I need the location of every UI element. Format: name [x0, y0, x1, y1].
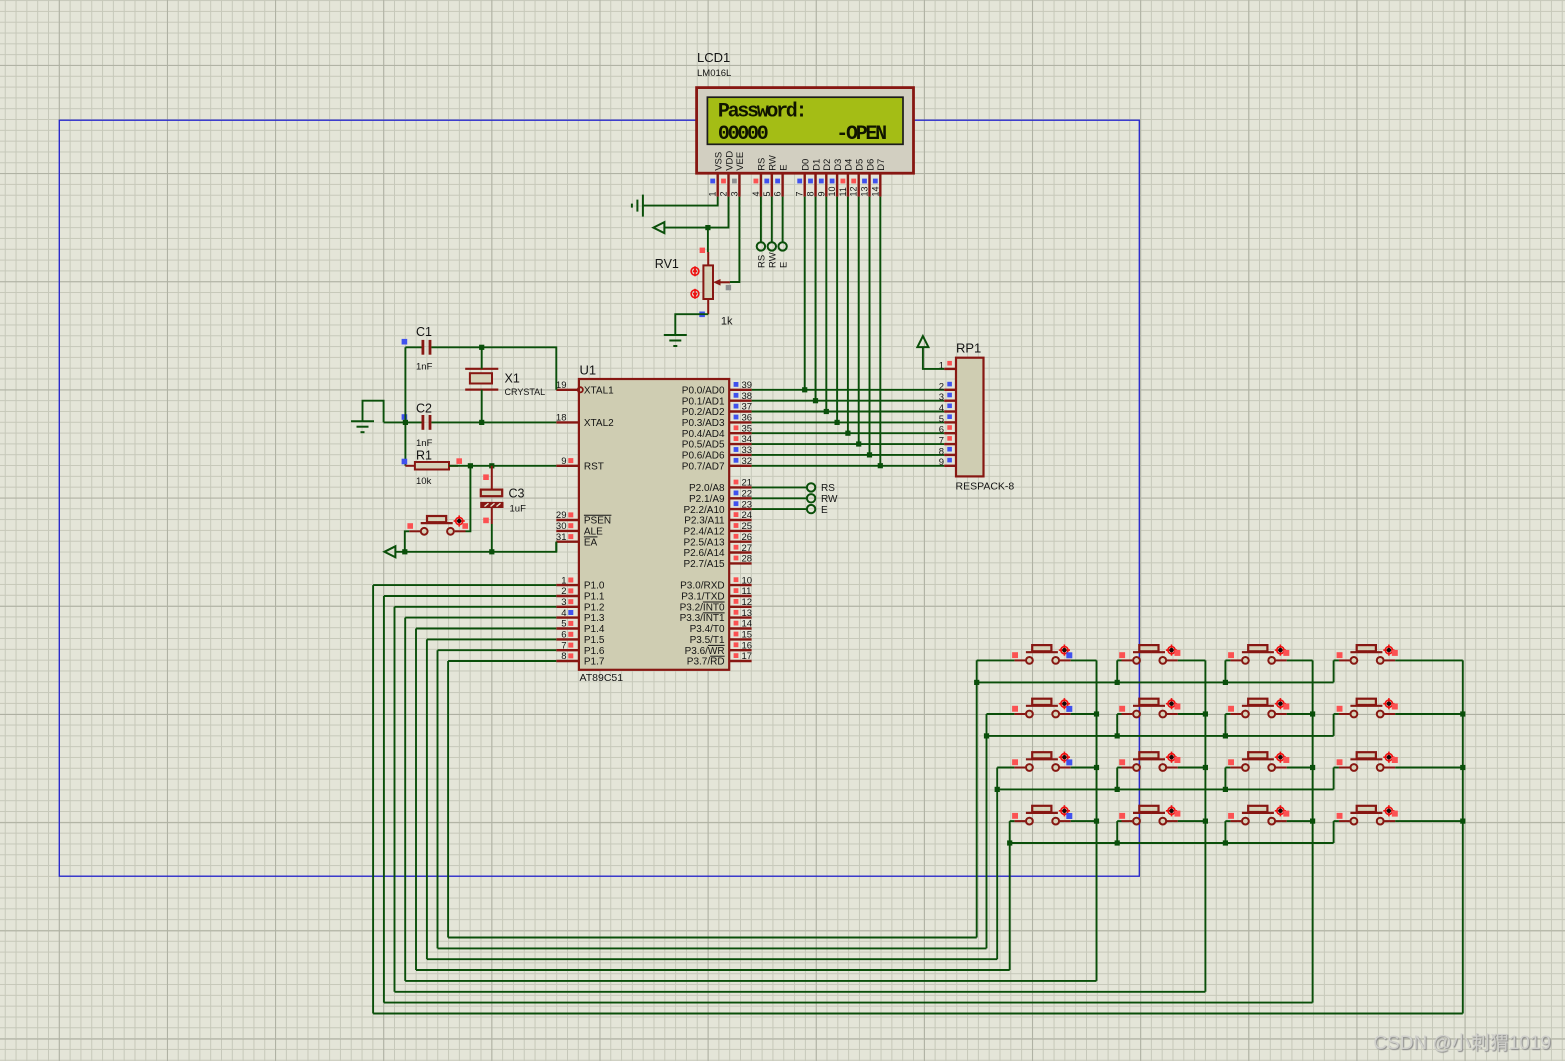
RP1 pin 8 [939, 446, 956, 457]
svg-text:P3.2/INT0: P3.2/INT0 [680, 602, 725, 613]
svg-text:12: 12 [849, 186, 859, 196]
svg-text:X1: X1 [505, 372, 520, 386]
wire keypad R4C4 right [1395, 820, 1463, 822]
state square keypad R1C1 left [1012, 652, 1018, 658]
push button keypad R1C2 [1122, 645, 1178, 664]
U1 pin 34 P0.5/AD5 [682, 434, 752, 451]
wire RV1 bottom to ground [675, 314, 708, 335]
svg-text:14: 14 [742, 619, 753, 630]
svg-text:LM016L: LM016L [697, 68, 731, 79]
RP1 pin 7 [939, 436, 956, 447]
wire keypad R2 left lead [987, 713, 1015, 715]
wire P1.4 horizontal [416, 628, 556, 630]
svg-text:25: 25 [742, 521, 753, 532]
junction D1/P0.1 [813, 398, 818, 403]
RP1 pin 3 [939, 392, 956, 403]
wire keypad R1C4 drop [1333, 660, 1335, 682]
state square keypad R1C4 right [1392, 650, 1398, 656]
state square RV1 bottom [699, 312, 705, 318]
wire keypad column 3 vertical [1312, 660, 1314, 1002]
wire keypad net 1 bottom [384, 1002, 1313, 1004]
wire D1 vertical [815, 197, 817, 401]
wire P1.3 vertical [404, 618, 406, 981]
state square keypad R3C4 right [1392, 757, 1398, 763]
wire keypad R2C2 left [1117, 713, 1121, 715]
wire P2.1 to RW terminal [752, 497, 808, 499]
state square keypad R3C3 right [1283, 757, 1289, 763]
svg-text:P3.5/T1: P3.5/T1 [690, 635, 725, 646]
ground (VSS) [632, 195, 643, 217]
svg-text:P0.7/AD7: P0.7/AD7 [682, 461, 725, 472]
svg-text:8: 8 [939, 446, 944, 457]
svg-text:18: 18 [556, 413, 567, 424]
wire keypad net 6 bottom [438, 947, 987, 949]
wire button left down [405, 531, 409, 552]
svg-text:8: 8 [561, 651, 566, 662]
svg-text:1nF: 1nF [416, 362, 433, 373]
svg-text:2: 2 [719, 191, 729, 196]
svg-text:15: 15 [742, 630, 753, 641]
U1 pin 19 XTAL1 [556, 380, 614, 396]
terminal E (U1 side) [807, 505, 815, 513]
U1 pin 11 P3.1/TXD [681, 586, 751, 602]
wire C1 to XTAL1 [431, 347, 556, 390]
state square keypad R4C1 right [1066, 813, 1072, 819]
wire keypad R2C4 left [1334, 713, 1339, 715]
LCD pin 6 E [773, 164, 790, 196]
LCD pin 5 RW [762, 155, 779, 196]
wire P1.0 vertical [372, 585, 374, 1013]
wire C2 to ground [363, 401, 384, 423]
U1 pin 4 P1.3 [556, 608, 605, 624]
svg-text:10: 10 [742, 575, 753, 586]
wire C1-C2-R1 vertical [404, 347, 406, 466]
resistor R1 [415, 462, 449, 470]
wire P0.3 to RP1 [752, 421, 945, 423]
svg-text:P2.1/A9: P2.1/A9 [689, 494, 725, 505]
wire keypad R4C3 drop [1224, 821, 1226, 843]
wire keypad R3C3 drop [1224, 768, 1226, 790]
junction row2 col2 [1115, 733, 1120, 738]
state square C2 left [402, 414, 408, 420]
svg-text:-OPEN: -OPEN [836, 123, 886, 146]
svg-text:P3.3/INT1: P3.3/INT1 [680, 613, 725, 624]
RP1 pin 9 [939, 457, 956, 468]
junction col 2 row 4 [1203, 819, 1208, 824]
push button keypad R2C3 [1230, 698, 1286, 717]
junction col 1 row 4 [1094, 819, 1099, 824]
wire keypad R1 left lead [977, 659, 1015, 661]
capacitor C3 top lead [491, 466, 493, 490]
svg-text:1: 1 [708, 191, 718, 196]
wire P0.0 to RP1 [752, 389, 945, 391]
state square keypad R4C1 left [1012, 813, 1018, 819]
state square keypad R4C4 left [1337, 813, 1343, 819]
wire VEE to RV1 wiper [730, 197, 740, 282]
wire keypad R1C3 right [1287, 659, 1313, 661]
svg-text:P3.0/RXD: P3.0/RXD [680, 581, 724, 592]
wire P1.5 vertical [426, 639, 428, 959]
svg-text:LCD1: LCD1 [697, 50, 730, 65]
wire keypad R4 left lead [1010, 820, 1015, 822]
U1 pin 12 P3.2/INT0 [680, 597, 753, 613]
svg-text:VSS: VSS [714, 152, 725, 171]
state square keypad R4C2 right [1174, 811, 1180, 817]
svg-text:9: 9 [939, 457, 944, 468]
svg-text:P2.7/A15: P2.7/A15 [683, 559, 725, 570]
svg-text:D7: D7 [876, 159, 887, 171]
U1 pin 27 P2.6/A14 [683, 543, 752, 559]
wire VCC line (EA) [395, 542, 556, 552]
junction RST/C3 [489, 463, 494, 468]
svg-text:RW: RW [821, 494, 838, 505]
U1 pin 23 P2.2/A10 [683, 499, 752, 516]
wire keypad R3 left lead [997, 767, 1014, 769]
push button keypad R3C1 [1014, 752, 1070, 771]
junction col 3 row 3 [1310, 765, 1315, 770]
svg-text:RST: RST [584, 461, 604, 472]
svg-text:16: 16 [742, 640, 753, 651]
svg-text:AT89C51: AT89C51 [580, 672, 624, 684]
push button keypad R3C3 [1230, 752, 1286, 771]
junction row2 col3 [1223, 733, 1228, 738]
svg-text:6: 6 [939, 425, 944, 436]
U1 pin 32 P0.7/AD7 [682, 456, 752, 473]
svg-text:30: 30 [556, 521, 567, 532]
wire keypad row 4 line [1010, 842, 1334, 844]
wire keypad R2C1 right [1071, 713, 1097, 715]
capacitor C2 [422, 415, 432, 430]
capacitor C1 [422, 340, 432, 355]
wire P2.2 to E terminal [752, 508, 808, 510]
wire keypad R2C4 right [1395, 713, 1463, 715]
wire keypad R1C4 left [1334, 659, 1339, 661]
svg-text:RW: RW [768, 252, 779, 268]
junction D7/P0.7 [878, 463, 883, 468]
svg-text:VDD: VDD [724, 151, 735, 171]
wire P1.2 horizontal [395, 606, 557, 608]
svg-text:13: 13 [860, 186, 870, 196]
junction D0/P0.0 [802, 387, 807, 392]
U1 pin 2 P1.1 [556, 586, 605, 602]
state square keypad R4C3 right [1283, 811, 1289, 817]
junction D5/P0.5 [856, 441, 861, 446]
junction col 1 row 2 [1094, 711, 1099, 716]
wire keypad net 2 bottom [395, 991, 1206, 993]
wire C1 net / XTAL1 [405, 346, 421, 348]
watermark [1373, 1028, 1551, 1055]
wire keypad net 0 bottom [373, 1013, 1463, 1015]
U1 pin 1 P1.0 [556, 575, 605, 591]
U1 pin 10 P3.0/RXD [680, 575, 752, 591]
RP1 pin 6 [939, 425, 956, 436]
junction row1 col3 [1223, 680, 1228, 685]
svg-text:P2.0/A8: P2.0/A8 [689, 483, 725, 494]
state square keypad R1C2 right [1174, 650, 1180, 656]
wire keypad R2C3 drop [1224, 714, 1226, 736]
wire keypad R2C2 drop [1116, 714, 1118, 736]
LCD pin 8 D1 [806, 159, 823, 197]
RP1 pin 1 [939, 361, 956, 372]
wire keypad R1C2 drop [1116, 660, 1118, 682]
svg-text:XTAL1: XTAL1 [584, 385, 614, 396]
schematic sheet border [59, 120, 1139, 876]
svg-text:28: 28 [742, 554, 753, 565]
U1 pin 30 ALE [556, 521, 603, 537]
LCD pin 9 D2 [816, 159, 833, 197]
push button keypad R4C4 [1339, 805, 1395, 824]
svg-text:1uF: 1uF [510, 503, 527, 514]
resistor pack RP1 body [956, 358, 984, 477]
U1 pin 16 P3.6/WR [685, 640, 752, 656]
junction col 4 row 3 [1460, 765, 1465, 770]
svg-text:10: 10 [827, 186, 837, 196]
wire RST net [449, 465, 556, 467]
wire keypad R2C4 drop [1333, 714, 1335, 736]
wire keypad column 2 vertical [1204, 660, 1206, 991]
state square keypad R2C1 right [1066, 706, 1072, 712]
svg-text:11: 11 [838, 187, 848, 196]
svg-text:00000: 00000 [718, 123, 768, 146]
U1 pin 21 P2.0/A8 [689, 478, 752, 495]
terminal RW (U1 side) [807, 494, 815, 502]
wire keypad R4C2 right [1178, 820, 1206, 822]
U1 pin 13 P3.3/INT1 [680, 608, 753, 624]
wire D2 vertical [825, 197, 827, 412]
svg-text:RW: RW [768, 155, 779, 171]
svg-text:RP1: RP1 [956, 341, 981, 356]
RP1 pin 2 [939, 381, 956, 392]
svg-text:9: 9 [816, 191, 826, 196]
wire keypad R4C1 right [1071, 820, 1097, 822]
svg-text:RV1: RV1 [655, 257, 679, 271]
junction col 2 row 3 [1203, 765, 1208, 770]
wire keypad R4C2 left [1117, 820, 1121, 822]
power terminal RP1 [917, 336, 928, 347]
junction row 2 left [984, 733, 989, 738]
svg-text:2: 2 [939, 381, 944, 392]
LCD pin 7 D0 [795, 159, 812, 197]
ground (XTAL) [351, 421, 374, 432]
state square button right [462, 523, 468, 529]
wire P1.1 vertical [383, 596, 385, 1003]
junction row3 col3 [1223, 787, 1228, 792]
svg-text:RS: RS [821, 483, 835, 494]
svg-text:34: 34 [742, 434, 753, 445]
svg-text:36: 36 [742, 413, 753, 424]
RP1 pin 4 [939, 403, 956, 414]
U1 pin 26 P2.5/A13 [683, 532, 752, 548]
svg-text:P0.0/AD0: P0.0/AD0 [682, 385, 725, 396]
wire keypad R4C4 left [1334, 820, 1339, 822]
wire D0 vertical [804, 197, 806, 390]
state square button left [407, 523, 413, 529]
svg-text:D3: D3 [833, 159, 844, 171]
wire P0.4 to RP1 [752, 432, 945, 434]
svg-text:8: 8 [806, 191, 816, 196]
junction row1 col2 [1115, 680, 1120, 685]
RV1 adjust up [691, 266, 699, 276]
svg-text:P0.1/AD1: P0.1/AD1 [682, 396, 725, 407]
svg-text:C2: C2 [416, 402, 432, 416]
LCD pin 11 D4 [838, 159, 855, 197]
svg-text:39: 39 [742, 380, 753, 391]
wire keypad row 1 line [977, 681, 1334, 683]
wire keypad row 3 line [997, 788, 1333, 790]
wire keypad row 2 vertical [986, 714, 988, 948]
junction C1 branch/C2 line [403, 420, 408, 425]
RP1 pin 5 [939, 414, 956, 425]
junction col 4 row 2 [1460, 711, 1465, 716]
svg-text:P1.6: P1.6 [584, 646, 605, 657]
LCD pin 12 D5 [849, 159, 866, 197]
svg-text:7: 7 [939, 436, 944, 447]
wire keypad R3C4 left [1334, 767, 1339, 769]
svg-text:38: 38 [742, 391, 753, 402]
svg-text:P3.7/RD: P3.7/RD [687, 657, 725, 668]
wire LCD RS to terminal [760, 197, 762, 243]
svg-text:2: 2 [561, 586, 566, 597]
svg-text:3: 3 [561, 597, 566, 608]
svg-text:3: 3 [729, 191, 739, 196]
LCD pin 3 VEE [729, 152, 746, 197]
state square keypad R3C4 left [1337, 759, 1343, 765]
svg-text:4: 4 [751, 191, 761, 196]
wire P1.1 horizontal [384, 595, 556, 597]
power terminal (reset net) [384, 546, 395, 557]
push button keypad R1C4 [1339, 645, 1395, 664]
wire C2 net / XTAL2 [384, 421, 422, 423]
svg-text:7: 7 [795, 191, 805, 196]
wire P0.5 to RP1 [752, 443, 945, 445]
wire keypad R2C3 left [1225, 713, 1230, 715]
U1 pin 24 P2.3/A11 [684, 510, 752, 526]
wire keypad R3C1 right [1071, 767, 1097, 769]
wire keypad R3C2 drop [1116, 768, 1118, 790]
push button keypad R1C1 [1014, 645, 1070, 664]
state square keypad R3C2 right [1174, 757, 1180, 763]
svg-text:Password:: Password: [718, 101, 805, 124]
wire keypad R3C4 drop [1333, 768, 1335, 790]
svg-text:P1.5: P1.5 [584, 635, 605, 646]
wire P1.3 horizontal [405, 617, 556, 619]
svg-text:PSEN: PSEN [584, 516, 611, 527]
wire keypad net 3 bottom [405, 980, 1096, 982]
LCD LCD1 body [697, 88, 914, 174]
svg-text:P2.3/A11: P2.3/A11 [684, 516, 725, 527]
svg-text:U1: U1 [580, 363, 597, 378]
svg-text:P0.4/AD4: P0.4/AD4 [682, 429, 725, 440]
wire keypad R4C3 left [1225, 820, 1230, 822]
push button keypad R3C4 [1339, 752, 1395, 771]
U1 pin 9 RST [556, 456, 604, 473]
wire C3 to VCC line [491, 524, 493, 552]
wire keypad column 1 vertical [1096, 660, 1098, 981]
push button (reset) [409, 515, 465, 534]
svg-text:D4: D4 [844, 159, 855, 171]
state square keypad R3C1 left [1012, 759, 1018, 765]
junction row 3 left [995, 787, 1000, 792]
state square keypad R2C2 right [1174, 704, 1180, 710]
svg-text:P1.7: P1.7 [584, 657, 605, 668]
U1 pin 35 P0.4/AD4 [682, 423, 752, 439]
wire keypad R1C2 left [1117, 659, 1121, 661]
state square keypad R2C3 left [1228, 706, 1234, 712]
wire P1.6 vertical [437, 650, 439, 948]
wire P1.4 vertical [415, 629, 417, 971]
U1 pin 38 P0.1/AD1 [682, 391, 752, 407]
junction D2/P0.2 [824, 409, 829, 414]
wire D6 vertical [869, 197, 871, 455]
svg-text:P1.3: P1.3 [584, 613, 605, 624]
LCD screen [707, 97, 903, 144]
junction col 1 row 3 [1094, 765, 1099, 770]
svg-text:17: 17 [742, 651, 753, 662]
svg-text:29: 29 [556, 510, 567, 521]
state square R1 left [402, 459, 408, 465]
svg-text:13: 13 [742, 608, 753, 619]
LCD pin 1 VSS [708, 152, 725, 197]
svg-text:VEE: VEE [735, 152, 746, 171]
push button keypad R4C3 [1230, 805, 1286, 824]
state square keypad R1C4 left [1337, 652, 1343, 658]
wire keypad net 7 bottom [448, 937, 977, 939]
state square keypad R2C4 left [1337, 706, 1343, 712]
junction VDD/RV1 [705, 225, 710, 230]
svg-text:RS: RS [757, 158, 768, 171]
svg-text:P1.2: P1.2 [584, 602, 605, 613]
state square RST net [456, 458, 462, 464]
junction row 4 left [1007, 840, 1012, 845]
U1 pin 37 P0.2/AD2 [682, 402, 752, 418]
svg-text:EA: EA [584, 537, 598, 548]
junction X1/C2 line [479, 420, 484, 425]
junction RST/button [468, 463, 473, 468]
svg-text:P3.4/T0: P3.4/T0 [690, 624, 725, 635]
svg-text:P2.2/A10: P2.2/A10 [683, 505, 725, 516]
wire D5 vertical [858, 197, 860, 445]
wire keypad net 4 bottom [416, 969, 1010, 971]
U1 pin 28 P2.7/A15 [683, 554, 752, 570]
wire LCD E to terminal [782, 197, 784, 243]
wire button right to RST [466, 466, 471, 532]
wire LCD RW to terminal [771, 197, 773, 243]
svg-text:P3.6/WR: P3.6/WR [685, 646, 725, 657]
U1 pin 14 P3.4/T0 [690, 619, 753, 635]
wire P0.6 to RP1 [752, 454, 945, 456]
junction row 1 left [974, 680, 979, 685]
U1 pin 31 EA [556, 532, 598, 548]
state square keypad R1C1 right [1066, 652, 1072, 658]
wire keypad R1C3 drop [1224, 660, 1226, 682]
wire P2.0 to RS terminal [752, 486, 808, 488]
LCD pin 4 RS [751, 158, 768, 197]
svg-text:10k: 10k [416, 476, 432, 487]
svg-text:3: 3 [939, 392, 944, 403]
junction col 3 row 2 [1310, 711, 1315, 716]
push button keypad R4C2 [1122, 805, 1178, 824]
svg-text:22: 22 [742, 489, 753, 500]
svg-text:7: 7 [561, 640, 566, 651]
svg-text:C1: C1 [416, 325, 432, 339]
junction col 4 row 4 [1460, 819, 1465, 824]
wire D7 vertical [879, 197, 881, 466]
junction row4 col3 [1223, 840, 1228, 845]
svg-text:P3.1/TXD: P3.1/TXD [681, 592, 724, 603]
junction D6/P0.6 [867, 452, 872, 457]
terminal RS (LCD side) [757, 242, 765, 250]
svg-text:CRYSTAL: CRYSTAL [505, 387, 546, 397]
